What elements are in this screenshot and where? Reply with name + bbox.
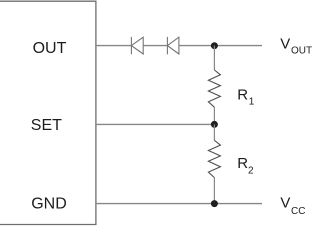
svg-text:GND: GND: [31, 196, 67, 213]
resistor R1: [208, 70, 220, 107]
svg-text:R: R: [237, 155, 248, 172]
svg-text:2: 2: [248, 166, 254, 177]
wire D2 to VOUT: [179, 45, 262, 47]
wire SET node down to R2: [213, 124, 215, 140]
wire R2 to GND line: [213, 178, 215, 204]
svg-text:OUT: OUT: [291, 46, 312, 57]
diode D2: [167, 37, 179, 54]
svg-text:R: R: [237, 86, 248, 103]
wire R1 to SET node: [213, 107, 215, 124]
wire GND pin to VCC: [96, 203, 262, 205]
resistor R2: [208, 140, 220, 177]
svg-text:OUT: OUT: [33, 40, 67, 57]
wire node VOUT down to R1: [213, 46, 215, 70]
wire OUT pin to diode D1: [96, 45, 131, 47]
svg-text:V: V: [280, 194, 290, 211]
regulator box U1: [0, 1, 96, 224]
node VCC junction dot: [211, 200, 218, 207]
wire SET pin: [96, 123, 214, 125]
diode D1: [131, 37, 143, 54]
node SET junction dot: [211, 121, 218, 128]
wire D1 to D2: [143, 45, 167, 47]
svg-text:V: V: [280, 36, 290, 53]
svg-text:CC: CC: [291, 206, 305, 217]
node VOUT junction dot: [211, 42, 218, 49]
svg-text:SET: SET: [31, 117, 62, 134]
svg-text:1: 1: [249, 97, 255, 108]
